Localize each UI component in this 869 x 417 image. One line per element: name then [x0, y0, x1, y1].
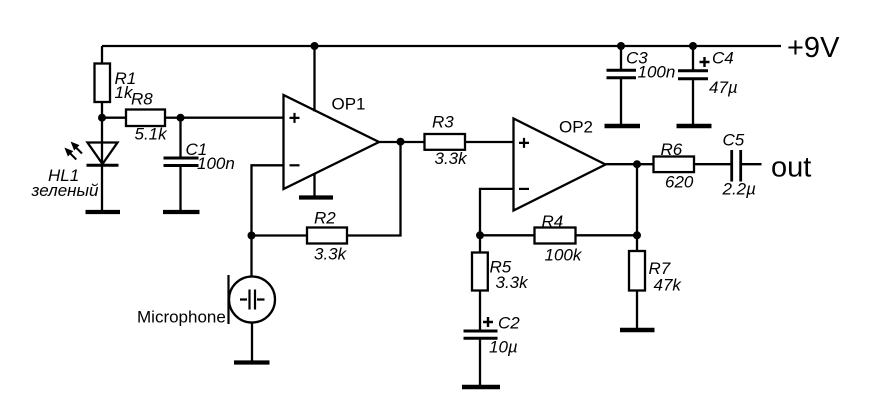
microphone electret bar — [227, 275, 229, 324]
node on rail for OP1 power — [311, 42, 319, 50]
LED HL1 triangle — [88, 143, 118, 165]
svg-text:OP1: OP1 — [332, 95, 366, 114]
capacitor C1 lead top — [179, 118, 181, 157]
wire node F down to node E — [636, 164, 638, 235]
wire OP2 output — [606, 163, 654, 165]
node OP1 output — [397, 138, 405, 146]
wire R5 to C2 — [479, 291, 481, 331]
wire R7 to ground — [636, 291, 638, 330]
capacitor C4 lead top — [692, 46, 694, 70]
capacitor C3 plates — [607, 70, 637, 78]
svg-text:47k: 47k — [654, 276, 683, 295]
wire +9V rail to OP1 power pin — [313, 46, 315, 112]
svg-text:Microphone: Microphone — [137, 308, 226, 327]
resistor R3 — [425, 134, 466, 150]
svg-text:3.3k: 3.3k — [435, 149, 469, 168]
svg-text:R6: R6 — [661, 140, 683, 159]
wire OP2 inverting input — [480, 189, 514, 235]
resistor R5 — [472, 253, 488, 291]
wire node D to R4 — [480, 234, 535, 236]
wire R1 top — [101, 46, 103, 64]
LED HL1 cathode bar — [87, 164, 119, 167]
microphone body circle — [229, 277, 275, 323]
wire node D to R5 — [479, 235, 481, 252]
svg-text:R2: R2 — [314, 209, 336, 228]
capacitor C3 lead bottom — [620, 79, 622, 125]
svg-text:+9V: +9V — [787, 32, 840, 64]
OP2 plus input mark — [519, 138, 529, 148]
node F (OP2 out) — [633, 160, 641, 168]
svg-text:OP2: OP2 — [559, 118, 593, 137]
svg-text:R3: R3 — [432, 113, 454, 132]
wire R2 to node C — [252, 234, 308, 236]
capacitor C3 lead top — [620, 46, 622, 70]
capacitor C4 plates — [678, 71, 708, 79]
svg-text:R8: R8 — [131, 90, 153, 109]
node D (R5/R4/OP2-) — [476, 231, 484, 239]
op-amp OP1 body — [284, 95, 380, 189]
+9V rail wire — [102, 45, 781, 47]
wire node A to R8 — [102, 117, 126, 119]
OP1 minus input mark — [290, 164, 300, 166]
svg-text:100n: 100n — [197, 154, 235, 173]
svg-text:3.3k: 3.3k — [314, 245, 348, 264]
ground OP1 — [299, 195, 333, 199]
capacitor C2 plus mark — [483, 317, 493, 327]
wire R1 bottom to node A — [101, 102, 103, 118]
LED arrow 2 — [65, 149, 76, 160]
node C4 on rail — [689, 42, 697, 50]
svg-text:3.3k: 3.3k — [496, 273, 530, 292]
wire OP1 output — [379, 141, 425, 143]
svg-text:C4: C4 — [712, 49, 734, 68]
wire node A through LED to ground — [101, 118, 103, 211]
node A (R1/R8/HL1) — [98, 114, 106, 122]
node B (R8/C1/OP1+) — [177, 114, 185, 122]
wire C5 to out — [742, 163, 762, 165]
capacitor C5 plates — [732, 150, 741, 182]
svg-text:620: 620 — [665, 173, 694, 192]
capacitor C1 lead bottom — [179, 167, 181, 211]
ground R7 — [620, 328, 655, 332]
resistor R2 — [307, 228, 347, 244]
capacitor C1 plates — [164, 158, 199, 166]
wire node E to R7 — [636, 235, 638, 251]
resistor R6 — [654, 157, 695, 173]
wire node B to OP1 noninverting input — [181, 117, 284, 119]
OP1 plus input mark — [290, 113, 300, 123]
capacitor C4 lead bottom — [692, 80, 694, 126]
ground HL1 — [86, 210, 121, 214]
wire R8 to node B — [165, 117, 181, 119]
svg-text:100n: 100n — [638, 63, 676, 82]
svg-text:C5: C5 — [723, 131, 745, 150]
resistor R1 — [95, 64, 111, 103]
svg-text:10µ: 10µ — [489, 338, 518, 357]
resistor R7 — [629, 251, 645, 291]
wire R4 to node E — [576, 234, 638, 236]
OP2 minus input mark — [519, 188, 529, 190]
node C3 on rail — [617, 42, 625, 50]
capacitor C2 lead bottom — [479, 340, 481, 387]
microphone capsule capacitor mark — [240, 290, 265, 310]
wire R6 to C5 — [694, 163, 731, 165]
ground C4 — [677, 124, 712, 128]
ground C3 — [605, 124, 641, 128]
svg-text:47µ: 47µ — [709, 78, 738, 97]
svg-text:R4: R4 — [542, 212, 564, 231]
ground C1 — [163, 210, 200, 214]
wire OP1 inverting input — [252, 165, 284, 235]
svg-text:100k: 100k — [545, 246, 583, 265]
wire microphone to ground — [251, 323, 253, 363]
op-amp OP2 body — [514, 119, 606, 211]
LED arrow 1 — [72, 143, 83, 154]
resistor R4 — [535, 228, 576, 244]
capacitor C2 plates — [464, 331, 498, 338]
ground microphone — [234, 360, 270, 364]
svg-text:5.1k: 5.1k — [135, 125, 169, 144]
feedback wire OP1 out down — [347, 142, 401, 236]
svg-text:2.2µ: 2.2µ — [722, 180, 757, 199]
svg-text:C2: C2 — [498, 314, 520, 333]
resistor R8 — [126, 110, 165, 127]
node C (R2/mic/OP1-) — [248, 232, 256, 240]
svg-text:зеленый: зеленый — [31, 181, 100, 200]
ground C2 — [462, 385, 500, 389]
node E (R4/R7/output leg) — [633, 231, 641, 239]
wire OP1 ground pin — [313, 174, 315, 198]
wire node C to microphone — [250, 236, 252, 278]
capacitor C4 plus mark — [700, 57, 710, 67]
svg-text:out: out — [771, 152, 811, 184]
wire R3 to OP2 noninverting input — [465, 141, 514, 143]
